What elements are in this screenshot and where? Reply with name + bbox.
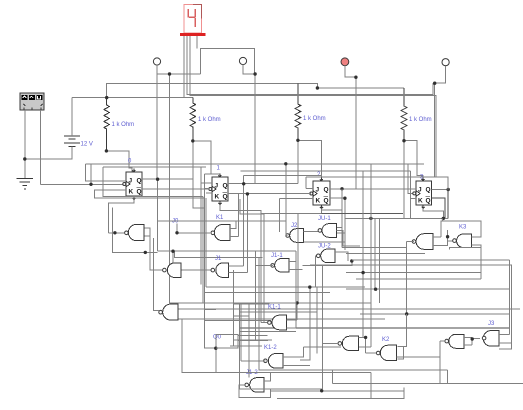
junction r4 bottom (402, 139, 405, 142)
svg-text:1 k Ohm: 1 k Ohm (409, 117, 432, 123)
wire riser x233 (232, 270, 234, 345)
and gate N1 (338, 336, 359, 350)
svg-text:Q: Q (137, 178, 142, 185)
wire ff3 clr stub right (322, 209, 342, 211)
svg-text:J: J (129, 178, 133, 185)
wire net y265 right (310, 265, 511, 343)
wire net y331 (239, 331, 296, 333)
probe X1 (153, 58, 160, 65)
wire K1-1 input a (287, 319, 298, 321)
wire battery plus up to rail (71, 98, 73, 136)
junction q0 (214, 347, 217, 350)
wire net y171 (241, 170, 411, 172)
wire K3A inputs (433, 236, 441, 238)
wire probe X3 node down to FF3 Q (355, 77, 357, 189)
wire VCC rail upper (107, 84, 298, 98)
and gate K2 (376, 345, 396, 360)
wire net to dot (302, 261, 351, 265)
wire FF4 Qbar output (432, 198, 446, 219)
wire branch into G2 (172, 251, 174, 263)
svg-text:J1: J1 (215, 256, 222, 262)
wire riser x379 (378, 218, 380, 303)
ground (17, 179, 34, 190)
wire J net horizontal (158, 250, 297, 252)
wire FF3 K riser (279, 199, 281, 232)
wire second net horizontal (175, 251, 263, 257)
wire probe X4 stem (435, 66, 446, 83)
wire net y383 (332, 383, 523, 385)
svg-text:J1-2: J1-2 (246, 370, 258, 376)
wire k3a input1 riser (440, 230, 442, 237)
wire R1 bottom to FF1 preset (106, 151, 131, 172)
wire LL input b (178, 318, 385, 320)
wire FF2 J input (201, 182, 212, 184)
wire LL input a (178, 308, 520, 310)
wire net y292 (204, 292, 330, 294)
wire VCC rail lower (72, 97, 193, 99)
wire clock line to FF1 clock (41, 183, 124, 185)
wire k3 box riser (442, 218, 444, 221)
wire K2 input loop (398, 347, 404, 360)
wire FF2 Q output (228, 182, 298, 184)
svg-text:Q: Q (426, 187, 431, 194)
7seg pin4 wire (196, 36, 198, 49)
wire probe X1 stem to FF1 Q (156, 65, 158, 179)
wire riser x255b (256, 251, 269, 340)
wire net y316 (233, 315, 249, 317)
wire N1 output left (323, 342, 338, 344)
svg-text:J3: J3 (488, 321, 495, 327)
svg-text:JU-1: JU-1 (318, 216, 331, 222)
junction x309 (308, 285, 311, 288)
wire FF3 Q to FF4 J (330, 188, 416, 190)
wire net y335 (238, 335, 268, 337)
svg-text:J0: J0 (172, 219, 179, 225)
svg-text:K: K (215, 194, 220, 201)
wire FF3 J riser (305, 177, 307, 189)
wire FF2 Qbar to FF3 clock (228, 193, 311, 195)
wire J3 input b loop (499, 343, 512, 349)
wire riser x370 (370, 164, 372, 347)
wire FF4 Q output (432, 189, 449, 191)
wire riser x317 (316, 287, 318, 354)
wire net y328 (239, 327, 509, 329)
wire K3A output left (407, 241, 415, 243)
junction y337 (364, 336, 367, 339)
svg-text:Q: Q (324, 198, 329, 205)
svg-text:JU-2: JU-2 (318, 244, 331, 250)
wire riser x259 (259, 258, 448, 371)
wire K1-1 output left (261, 322, 268, 324)
7seg pin3 wire (190, 36, 436, 177)
junction net y218 b (442, 217, 445, 220)
junction y314 (405, 312, 408, 315)
junction J1-1 out (350, 259, 353, 262)
wire riser x248 (248, 304, 250, 378)
wire net y289 right (346, 288, 509, 290)
wire JU-1 input stub b (336, 232, 345, 234)
and gate K1-2 (264, 354, 283, 369)
wire J1-1 input a (289, 261, 296, 263)
junction ff1 q (156, 178, 159, 181)
wire JU-1 input stub a (336, 227, 342, 229)
wire J1-2 output loop (239, 385, 271, 398)
junction aux (144, 251, 147, 254)
wire bar vertical d (205, 198, 207, 287)
svg-text:Q: Q (137, 189, 142, 196)
svg-text:K1-2: K1-2 (264, 345, 277, 351)
svg-text:1 k Ohm: 1 k Ohm (303, 116, 326, 122)
wire net y320 (205, 319, 272, 321)
wire J1-2 input a (264, 372, 270, 381)
junction net x297 (295, 301, 298, 304)
wire net y287 (206, 286, 365, 288)
wire bar vertical c (204, 174, 215, 348)
junction ff3 clk (246, 192, 249, 195)
probe X3 red (341, 58, 349, 66)
junction FF4 Q (447, 188, 450, 191)
7seg pin1 wire (183, 36, 185, 98)
probe X4 (442, 59, 449, 66)
wire K1-1 input b (287, 327, 297, 329)
wire FF4 clear (423, 209, 443, 219)
wire net q0 (205, 308, 216, 310)
wire J1-2 input b (264, 389, 404, 391)
svg-text:J: J (215, 183, 219, 190)
wire probe X3 stem (345, 66, 356, 78)
wire fn-gen plus terminal down to clock line (40, 110, 42, 184)
svg-text:Q0: Q0 (213, 335, 222, 341)
wire long under-FF1 line (103, 167, 203, 197)
wire J2 output left riser (238, 194, 240, 237)
svg-text:1 k Ohm: 1 k Ohm (112, 122, 135, 128)
wire net y304 (233, 303, 269, 305)
wire K2 input b (397, 356, 441, 358)
wire J3 output left (472, 337, 480, 339)
wire net y312 (239, 311, 317, 313)
wire long net y218 (345, 217, 448, 219)
wire q0 branch right (216, 335, 238, 349)
wire aux pair left (113, 207, 158, 252)
7seg display U5 (180, 5, 206, 36)
junction j net (171, 250, 174, 253)
wire K1-2 output left (241, 360, 266, 362)
and gate JU-1 (318, 224, 336, 238)
wire FF3 Q branch down (341, 189, 343, 248)
junction r2 bottom (191, 139, 194, 142)
JK flip-flop U4 (413, 178, 432, 209)
junction ground node (23, 157, 26, 160)
wire net y272 right (346, 272, 482, 274)
wire FF3 J input (306, 188, 313, 190)
junction y389 (320, 389, 323, 392)
junction ff2j riser (242, 182, 245, 185)
and gate JU-2 (317, 249, 336, 263)
wire FF3 clock riser (246, 194, 248, 273)
and gate G1 (125, 224, 145, 240)
and gate K1 (211, 225, 230, 241)
svg-text:1 k Ohm: 1 k Ohm (198, 117, 221, 123)
svg-text:K1: K1 (216, 215, 224, 221)
wire riser x239 low (238, 303, 240, 389)
wire battery minus to ground node (25, 146, 72, 159)
wire FF1 clear staircase (109, 200, 134, 233)
wire J1-1 output left (256, 264, 273, 266)
svg-text:K1-1: K1-1 (268, 305, 281, 311)
junction x363 y272 (361, 271, 364, 274)
wire R3 bottom to FF3 preset (298, 140, 322, 181)
svg-text:K: K (129, 189, 134, 196)
wire M1 output left (440, 340, 445, 342)
wire clr riser x298 (297, 213, 299, 303)
wire probe X2 node down (254, 74, 256, 183)
wire R3 bottom down to FF2 Q net (297, 140, 299, 183)
svg-text:K2: K2 (382, 337, 390, 343)
wire net K1-1 top (170, 302, 371, 304)
wire riser x480 (480, 248, 482, 279)
wire M1 input b (464, 344, 472, 346)
svg-text:12 V: 12 V (81, 142, 93, 148)
svg-text:Q: Q (223, 194, 228, 201)
wire net y247 (342, 247, 407, 249)
wire net y340 (233, 339, 272, 341)
wire FF1 Q output (142, 178, 193, 180)
junction rail jog (316, 86, 319, 89)
wire R4 bottom to FF4 preset (404, 141, 423, 181)
wire K3 node riser (447, 230, 449, 237)
wire FF2 clear (220, 205, 261, 323)
wire FF2 clock stub (204, 187, 209, 189)
wire probe X4 node down (434, 83, 436, 177)
junction g1 in (113, 231, 116, 234)
wire FF3 branch (286, 164, 288, 236)
wire N1 input2 stub (358, 346, 360, 348)
wire M1 out riser (439, 341, 441, 384)
wire rail drop to FF4 clock (408, 164, 413, 194)
wire second rail (103, 166, 206, 168)
resistor R3 1k (295, 84, 301, 141)
and gate J1-2 (245, 378, 264, 393)
wire FF2 K input (206, 192, 212, 194)
wire FF4 K input (411, 198, 417, 200)
wire R4 bottom down to FF4 J net (403, 141, 405, 219)
junction r3 bottom (296, 139, 299, 142)
svg-text:Q: Q (426, 198, 431, 205)
wire FF4 Q branch down (447, 190, 449, 219)
junction probe3 (354, 76, 357, 79)
wire K3A out riser (406, 242, 408, 315)
wire K1-2 input a (283, 347, 304, 357)
wire FF2 J riser (243, 175, 245, 265)
junction FF3 Qbar (343, 197, 346, 200)
wire G1 input b stub (144, 235, 150, 237)
wire corner x332 (331, 370, 333, 383)
and gate J3 (482, 331, 499, 347)
junction y289 (374, 288, 377, 291)
resistor R1 1k (104, 98, 110, 151)
wire JU-2 output riser (315, 256, 318, 287)
wire FF4 Q loop (435, 177, 449, 190)
wire bar vertical b (203, 196, 204, 303)
wire G1 input a path (144, 228, 161, 270)
wire clr extend right (322, 212, 404, 214)
wire J1-1 input b (289, 269, 302, 271)
wire K2 out riser (365, 337, 367, 353)
wire J3 out to node (471, 338, 473, 345)
wire preset jog left (204, 173, 210, 175)
junction k3a in (446, 235, 449, 238)
wire riser x363 (362, 171, 364, 337)
wire rail jog to right (298, 84, 404, 88)
wire JU-1 output (337, 230, 361, 246)
junction net y218 a (369, 217, 372, 220)
junction r1 bottom (105, 149, 108, 152)
wire q0 node (216, 340, 371, 373)
wire J0 stub (177, 224, 210, 233)
wire fn-gen minus terminal to ground (24, 110, 26, 178)
wire FF4 K riser (410, 171, 412, 218)
wire K1-2 out riser (240, 303, 242, 361)
svg-text:Q: Q (223, 183, 228, 190)
wire JU-2 input a (335, 252, 348, 261)
wire K3 output left (448, 240, 455, 242)
wire corner x447 (447, 370, 449, 383)
svg-text:Q: Q (324, 187, 329, 194)
JK flip-flop U2 (209, 174, 228, 205)
wire J2 input2 (304, 241, 345, 243)
svg-text:J2: J2 (291, 223, 298, 229)
wire net y253 (346, 252, 425, 254)
wire corner x371 (370, 372, 372, 398)
wire net y337 (359, 336, 366, 338)
wire net bottom y397 right (277, 387, 404, 398)
wire net y347 b (359, 346, 371, 348)
resistor R2 1k (190, 98, 196, 141)
wire K3A input2 (433, 237, 448, 246)
wire FF3 clear (261, 209, 322, 214)
wire node line up-over to probe X2 (201, 49, 255, 75)
wire FF1 Q branch down (157, 179, 159, 251)
and gate J1-1 (271, 259, 289, 273)
wire riser x509 (508, 260, 510, 334)
probe X2 (239, 57, 246, 64)
wire net y260 right (352, 259, 509, 261)
junction j0 (175, 231, 178, 234)
svg-text:J: J (418, 187, 422, 194)
wire FF1 K input (95, 190, 204, 198)
junction M1 out (471, 337, 474, 340)
and gate G2 (163, 263, 181, 278)
and gate LL (159, 304, 178, 320)
wire LL output left (154, 238, 159, 310)
junction FF3 Q (340, 187, 343, 190)
wire riser x294 (295, 251, 297, 328)
and gate J1 (211, 263, 229, 278)
wire R2 bottom to FF2 preset (193, 141, 220, 177)
wire G2 output to J1 (182, 269, 211, 271)
wire riser x322 (322, 265, 324, 389)
svg-text:K3: K3 (459, 225, 467, 231)
wire FF1 J input (86, 164, 127, 181)
and gate K3 (453, 234, 472, 248)
junction clock (89, 183, 92, 186)
wire FF3 Qbar output (330, 198, 345, 250)
clock rail riser (90, 164, 92, 185)
wire bar vertical a (200, 167, 202, 285)
wire JU-1 output to J2 input (304, 231, 319, 233)
wire node to G1 input (109, 232, 124, 234)
wire net y220 (158, 220, 286, 222)
wire J3 input a (499, 333, 509, 335)
junction probe2 (253, 72, 256, 75)
wire riser x406 lower (404, 314, 407, 347)
wire FF1 Qbar to FF2 clock (142, 188, 209, 190)
junction rail clock (284, 162, 287, 165)
wire K1 input b (230, 236, 239, 238)
wire FF3 K input (280, 198, 313, 200)
wire FF4 Q loop line (306, 176, 435, 178)
wire K1-2 input b (283, 365, 310, 367)
wire net y175 (244, 174, 322, 176)
wire R2 bottom down (193, 141, 205, 208)
and gate K1-1 (268, 315, 287, 330)
wire net y314 (360, 313, 509, 315)
wire FF2 aux loop (240, 199, 264, 323)
7seg pin2 wire (187, 36, 433, 95)
wire J1 input a (229, 265, 244, 267)
wire probe X1 node line (157, 73, 201, 75)
wire K1 output (230, 221, 236, 229)
wire net y345 left (230, 345, 262, 347)
function generator XFG1 (20, 93, 44, 110)
wire probe X1 node down (169, 74, 171, 303)
JK flip-flop U3 (310, 178, 330, 209)
wire riser x309 (300, 287, 310, 360)
svg-text:K: K (316, 198, 321, 205)
svg-text:K: K (418, 198, 423, 205)
wire K3 input loop (450, 245, 481, 250)
wire riser x182 (182, 319, 216, 372)
wire net bottom y389 link (239, 388, 322, 390)
svg-text:J: J (316, 187, 320, 194)
junction probe4 (433, 82, 436, 85)
wire riser x297 (296, 303, 298, 320)
wire riser x375 (374, 218, 376, 289)
junction probe1 (168, 72, 171, 75)
wire M1 input a (464, 337, 472, 339)
resistor R4 1k (401, 88, 407, 141)
and gate K3A (412, 234, 433, 250)
wire K3 input top (471, 230, 480, 237)
wire K2 output left (366, 352, 377, 354)
battery V1 12V (64, 136, 80, 147)
wire J1 input b (229, 272, 248, 274)
and gate M1 (445, 334, 464, 348)
junction vcc (105, 96, 108, 99)
wire probe X2 stem (243, 65, 255, 74)
and gate J2 (286, 229, 304, 243)
wire K3 box top (441, 221, 481, 230)
wire net y347 (304, 346, 342, 348)
svg-text:J1-1: J1-1 (271, 253, 283, 259)
wire clock distribution rail (86, 163, 425, 165)
wire net y278 right (356, 278, 481, 280)
JK flip-flop U1 (123, 169, 142, 200)
wire net y340 (238, 339, 256, 341)
